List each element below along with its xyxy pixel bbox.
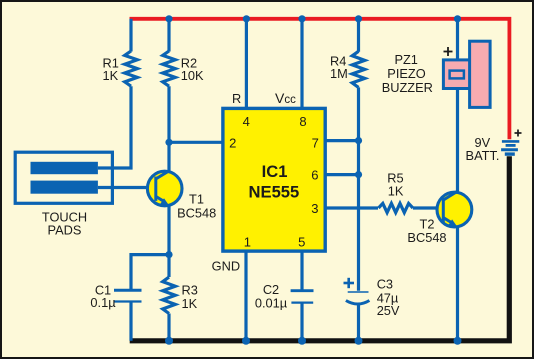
svg-text:10K: 10K [181, 68, 204, 83]
svg-text:6: 6 [311, 167, 318, 182]
svg-text:BATT.: BATT. [466, 148, 500, 163]
svg-text:3: 3 [311, 201, 318, 216]
svg-text:T2: T2 [420, 216, 435, 231]
svg-text:GND: GND [212, 258, 240, 273]
svg-text:NE555: NE555 [249, 183, 300, 202]
svg-text:4: 4 [243, 114, 250, 129]
svg-text:1K: 1K [103, 68, 119, 83]
svg-text:7: 7 [312, 135, 319, 150]
svg-text:2: 2 [229, 135, 236, 150]
svg-text:1K: 1K [182, 296, 198, 311]
svg-text:PZ1: PZ1 [394, 52, 417, 67]
svg-text:BC548: BC548 [177, 206, 216, 221]
svg-text:1M: 1M [330, 66, 348, 81]
svg-text:PADS: PADS [48, 223, 82, 238]
svg-text:R: R [232, 91, 241, 106]
svg-text:1K: 1K [388, 183, 404, 198]
svg-text:C3: C3 [377, 277, 393, 292]
svg-text:BUZZER: BUZZER [382, 80, 433, 95]
svg-text:25V: 25V [377, 303, 400, 318]
svg-text:0.1µ: 0.1µ [90, 295, 116, 310]
svg-text:8: 8 [299, 114, 306, 129]
svg-text:1: 1 [244, 234, 251, 249]
svg-text:IC1: IC1 [262, 162, 288, 181]
svg-text:0.01µ: 0.01µ [255, 296, 288, 311]
svg-text:5: 5 [298, 234, 305, 249]
svg-text:T1: T1 [189, 192, 204, 207]
svg-text:BC548: BC548 [407, 230, 446, 245]
